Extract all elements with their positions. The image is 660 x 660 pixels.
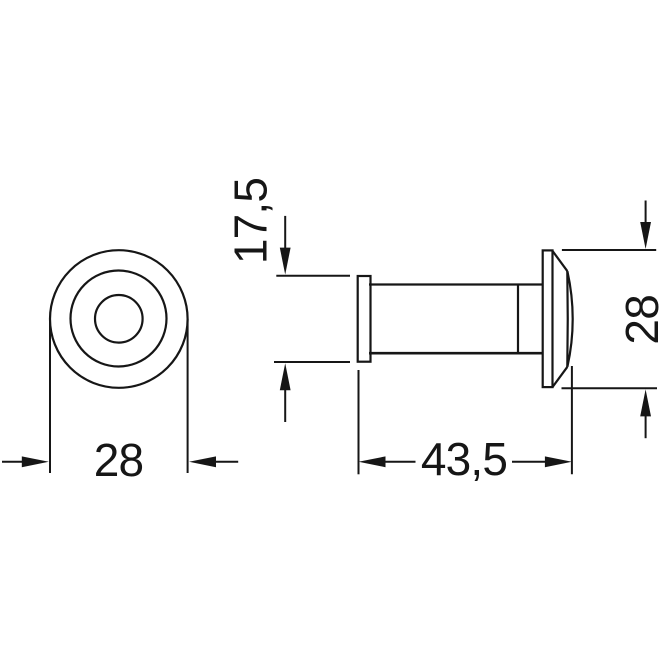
svg-text:28: 28 (94, 434, 144, 486)
dim 28 right extension line top (562, 249, 656, 251)
svg-text:17,5: 17,5 (225, 178, 277, 264)
front view middle circle (barrel) (71, 271, 167, 367)
side view nut ring rect (358, 276, 371, 362)
dim 28 right arrow top (640, 201, 651, 250)
dim 28 right extension line bottom (562, 387, 658, 389)
side view flange rect (543, 250, 553, 387)
dim 17,5 extension line bottom (274, 361, 350, 363)
side view dome outer arc (567, 271, 572, 367)
dim 17,5 arrow top (280, 216, 291, 275)
dim 28 left extension line left (49, 319, 51, 473)
front view inner circle (lens hole) (95, 295, 143, 343)
side view barrel bottom line (369, 352, 543, 355)
front view outer circle (flange OD 28) (50, 250, 188, 388)
dim 28 left arrow right (189, 456, 238, 467)
dim 43,5 extension line right (571, 366, 573, 474)
dim 28 right arrow bottom (640, 389, 651, 438)
svg-text:28: 28 (616, 295, 660, 345)
dim 28 left extension line right (187, 319, 189, 473)
side view dome bottom slant (553, 367, 568, 387)
svg-text:43,5: 43,5 (421, 433, 507, 485)
dim 43,5 arrow right (512, 456, 572, 467)
dim 43,5 arrow left (359, 456, 416, 467)
side view barrel top line (369, 283, 543, 285)
dim 43,5 extension line left (358, 370, 360, 474)
dim 28 left arrow left (2, 456, 49, 467)
side view dome top slant (553, 251, 568, 271)
side view lens inner arc (566, 271, 569, 367)
dim 17,5 extension line top (276, 275, 350, 277)
side view thread end line (517, 285, 519, 354)
dim 17,5 arrow bottom (280, 363, 291, 422)
